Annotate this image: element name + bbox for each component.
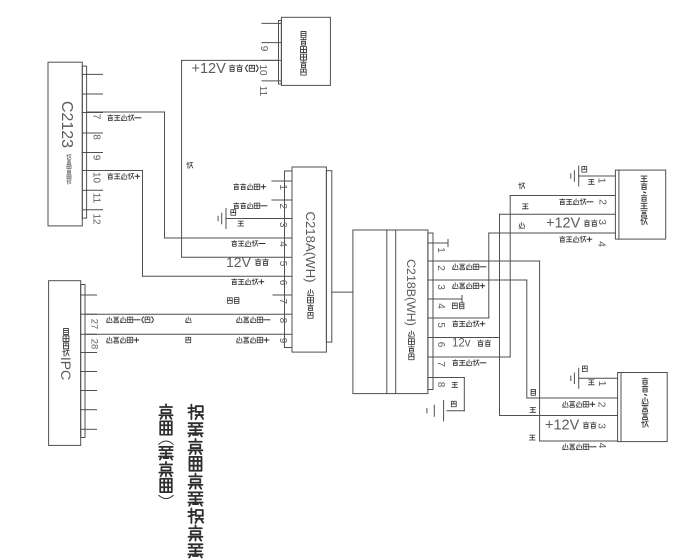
label C218A(WH) [303,211,318,318]
svg-text:7: 7 [435,361,446,367]
component right pad cruise buttons [618,373,668,442]
svg-text:8: 8 [91,134,102,140]
svg-text:C2123: C2123 [58,101,75,148]
label +12V power (parallel) [192,61,259,77]
label audio control + at C2123 pin10 [108,173,140,179]
wire audio control + : C2123 pin10 to C218A pin6 [87,171,285,277]
svg-text:1: 1 [435,247,446,253]
svg-text:3: 3 [277,222,288,228]
label audio control - at C218B pin7 [453,360,486,366]
label right pad cruise buttons [642,378,649,428]
component left pad audio buttons [615,170,665,239]
wire 12V power : C218B pin6 to left pad pin3 and right pad pin3 (orange) [433,214,618,415]
labels cruise signal - (parallel), white, cruise signal - [106,317,269,323]
stub horn C218B pin4 [433,296,462,303]
svg-text:1: 1 [595,178,607,184]
IPC pin numbers 27 28 [88,319,99,350]
ground symbol left pad [571,166,579,186]
label 12V power at C218A pin5 [226,254,268,270]
label gray upper [519,183,525,189]
svg-text:28: 28 [88,339,99,350]
label audio control + at left pad pin4 [560,236,592,242]
stub airbag signal + C218A pin1 [272,180,285,182]
svg-text:1: 1 [277,184,288,190]
label orange upper [522,204,528,209]
svg-text:10: 10 [257,64,268,76]
svg-text:27: 27 [88,319,99,330]
label blue [529,435,535,440]
connector C2123 display interface module [48,62,103,226]
svg-text:2: 2 [435,265,446,271]
label cruise signal - at right pad pin4 [562,444,595,450]
svg-text:4: 4 [596,443,608,449]
svg-text:9: 9 [277,338,288,344]
svg-text:1: 1 [596,381,608,387]
svg-text:5: 5 [435,322,446,328]
wire cruise signal - : C218B pin2 to right pad pin4 (blue) [433,261,618,441]
wire ground C218B pin8 [433,378,464,411]
wire audio control - : C218B pin7 to left pad pin2 (gray) [433,196,615,358]
svg-text:4: 4 [435,303,446,309]
label wire color gray [187,162,193,168]
svg-text:2: 2 [595,402,607,408]
stub C218B pin1 [433,240,448,247]
svg-text:4: 4 [595,241,607,247]
connector headlight switch plug [262,17,330,85]
label left pad audio buttons [641,176,648,225]
svg-text:3: 3 [435,284,446,290]
wire cruise signal - (parallel) : IPC pin27 to C218A pin8 [85,313,285,315]
title: Yibo multifunction steering wheel wiring diagram (fashion type) [159,404,203,557]
svg-text:9: 9 [91,155,102,161]
wire +12V power (parallel) : headlight plug pin10 to C218A pin5 [182,60,285,257]
label black / ground at C218A pin3 [231,210,244,226]
label horn left [227,298,239,304]
svg-text:3: 3 [595,423,607,429]
wire ground right pad pin1 [579,377,618,379]
stub airbag signal - C218A pin2 [272,199,285,201]
label cruise signal + at C218B pin3 [452,283,484,289]
wire audio control - : C2123 pin7 to C218A pin4 [87,112,285,238]
right pad pin numbers 1-4 [595,381,608,449]
svg-text:6: 6 [277,280,288,286]
label audio control + at C218B pin5 [453,321,485,327]
wire cruise signal + : IPC pin28 to C218A pin9 [85,333,285,335]
label black / ground left pad [582,167,594,185]
C2123 pin numbers 7-12 [91,114,102,225]
svg-text:4: 4 [277,241,288,247]
svg-text:12V: 12V [226,254,252,270]
stub horn C218A pin7 [273,294,285,296]
ground at C218A pin3 [218,209,284,229]
svg-text:9: 9 [258,46,269,52]
svg-text:2: 2 [596,199,608,205]
label +12V power at left pad pin3 [546,216,597,232]
label C2123 [58,101,75,184]
svg-text:+12V: +12V [546,216,581,232]
headlight plug pin numbers 9 10 11 [257,46,269,97]
label ground / black at C218B pin8 [451,382,457,406]
C218A pin numbers 1-9 [277,184,288,343]
label yellow [531,389,535,395]
svg-text:C218B(WH): C218B(WH) [404,259,418,326]
label cruise signal + at right pad pin2 [562,401,594,407]
ground symbol right pad [571,368,579,388]
ground symbol C218B pin8 [427,401,444,422]
svg-text:8: 8 [435,382,446,388]
svg-text:5: 5 [277,261,288,267]
svg-text:C218A(WH): C218A(WH) [303,211,318,282]
label audio control + at C218A pin6 [232,279,264,285]
svg-text:7: 7 [277,298,288,304]
connector C218B(WH) mating plug [353,230,433,394]
svg-text:3: 3 [596,219,608,225]
label IPC [58,328,74,380]
svg-text:12: 12 [91,213,102,225]
label airbag signal + [234,184,266,190]
label orange lower [530,407,536,412]
wire ground left pad pin1 [579,175,616,177]
connector combination instrument IPC [49,281,97,446]
wire cruise signal + : C218B pin3 to right pad pin2 (yellow) [433,280,618,398]
label headlight switch plug [300,31,306,75]
label C218B(WH) [404,259,418,360]
left pad pin numbers 1-4 [595,178,608,248]
label horn right [452,303,464,309]
svg-text:IPC: IPC [58,357,74,380]
label audio control - at C2123 pin7 [108,115,141,121]
svg-text:+12V: +12V [192,61,227,77]
label airbag signal - [234,203,267,209]
svg-text:10: 10 [91,172,102,184]
svg-text:7: 7 [91,114,102,120]
labels cruise signal +, black, cruise signal + [106,337,268,343]
connector C218A(WH) mating plug [285,167,332,352]
label +12V power at right pad pin3 [545,418,596,434]
wire audio control + : C218B pin5 to left pad pin4 (white) [433,233,615,318]
svg-text:11: 11 [91,193,102,204]
label cruise signal - at C218B pin2 [452,264,485,270]
C218B pin numbers 1-8 [435,247,446,388]
label audio control - at C218A pin4 [232,240,265,246]
label audio control - at left pad pin2 [560,199,593,205]
label 12v power at C218B pin6 [452,338,491,350]
wire link C218A to C218B [332,291,353,293]
svg-text:8: 8 [277,318,288,324]
label black / ground right pad [582,366,594,385]
svg-text:11: 11 [257,86,268,97]
svg-text:6: 6 [435,342,446,348]
svg-text:12v: 12v [452,338,471,350]
svg-text:+12V: +12V [545,418,580,434]
svg-text:2: 2 [277,203,288,209]
label white upper [519,222,525,228]
